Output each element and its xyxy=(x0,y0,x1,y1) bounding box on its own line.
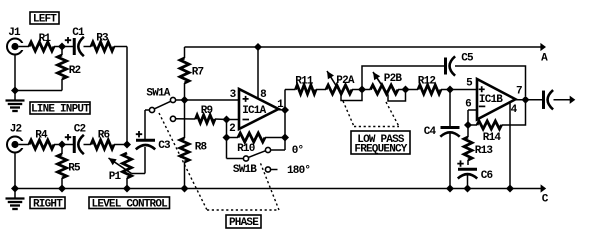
svg-text:R6: R6 xyxy=(98,130,110,142)
svg-text:R14: R14 xyxy=(483,132,502,144)
svg-text:R2: R2 xyxy=(69,65,81,77)
svg-text:J1: J1 xyxy=(8,27,21,39)
svg-text:P1: P1 xyxy=(109,171,122,183)
svg-text:6: 6 xyxy=(465,99,471,111)
svg-text:PHASE: PHASE xyxy=(229,217,259,229)
svg-text:180°: 180° xyxy=(287,165,310,177)
svg-text:SW1B: SW1B xyxy=(233,164,257,176)
svg-text:R13: R13 xyxy=(475,145,494,157)
svg-text:C4: C4 xyxy=(424,126,437,138)
svg-text:LINE INPUT: LINE INPUT xyxy=(31,104,90,116)
svg-text:SW1A: SW1A xyxy=(146,88,170,100)
svg-text:J2: J2 xyxy=(10,124,22,136)
svg-text:R9: R9 xyxy=(201,105,213,117)
svg-text:RIGHT: RIGHT xyxy=(33,198,63,210)
svg-text:C6: C6 xyxy=(481,170,493,182)
svg-text:C3: C3 xyxy=(158,140,171,152)
svg-text:2: 2 xyxy=(229,123,235,135)
svg-text:R10: R10 xyxy=(237,143,255,155)
svg-text:R7: R7 xyxy=(192,67,204,79)
svg-text:P2A: P2A xyxy=(336,75,355,87)
svg-text:FREQUENCY: FREQUENCY xyxy=(354,143,407,155)
svg-text:R4: R4 xyxy=(35,130,48,142)
svg-text:IC1B: IC1B xyxy=(479,94,503,106)
svg-text:R1: R1 xyxy=(39,33,52,45)
svg-text:C2: C2 xyxy=(74,124,86,136)
svg-text:C1: C1 xyxy=(72,27,85,39)
svg-text:C5: C5 xyxy=(461,53,474,65)
svg-text:R5: R5 xyxy=(68,163,81,175)
svg-text:R11: R11 xyxy=(295,76,314,88)
svg-text:P2B: P2B xyxy=(384,73,403,85)
svg-text:R12: R12 xyxy=(418,76,436,88)
svg-text:R8: R8 xyxy=(195,142,208,154)
svg-text:LEFT: LEFT xyxy=(33,14,57,26)
svg-text:0°: 0° xyxy=(292,145,304,157)
svg-text:IC1A: IC1A xyxy=(242,105,266,117)
svg-text:7: 7 xyxy=(516,86,522,98)
svg-text:R3: R3 xyxy=(96,33,109,45)
svg-text:LEVEL CONTROL: LEVEL CONTROL xyxy=(92,198,169,210)
